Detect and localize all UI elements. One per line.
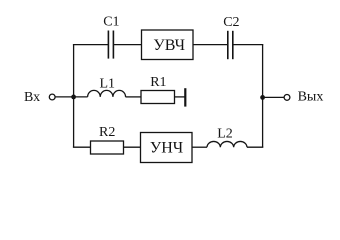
wire: L2 to right rail bbox=[247, 146, 263, 148]
svg-text:C1: C1 bbox=[103, 15, 119, 30]
inductor L2 bbox=[207, 141, 247, 147]
svg-text:R2: R2 bbox=[99, 125, 115, 140]
junction: output node dot on right rail bbox=[260, 95, 265, 100]
svg-text:R1: R1 bbox=[150, 75, 166, 90]
wire: left rail (node A vertical bus) bbox=[73, 45, 75, 148]
wire: УВЧ to C2 bbox=[193, 44, 228, 46]
wire: right rail to output circle bbox=[263, 96, 284, 98]
wire: R2 to УНЧ box bbox=[124, 146, 141, 148]
svg-text:УВЧ: УВЧ bbox=[153, 37, 185, 54]
inductor L1 bbox=[88, 90, 126, 97]
junction: input node dot on left rail bbox=[71, 95, 76, 100]
wire: R1 to terminal bar bbox=[175, 96, 186, 98]
wire: right rail (node B vertical bus) bbox=[262, 45, 264, 148]
svg-text:C2: C2 bbox=[223, 15, 239, 30]
terminal: input circle bbox=[49, 94, 55, 100]
resistor R1 bbox=[141, 91, 175, 104]
wire: left rail to R2 bbox=[73, 146, 91, 148]
terminal: output circle bbox=[284, 95, 290, 101]
wire: L1 to R1 bbox=[126, 96, 142, 98]
wire: УНЧ to L2 bbox=[192, 146, 207, 148]
capacitor C1 bbox=[108, 31, 113, 59]
svg-text:УНЧ: УНЧ bbox=[150, 140, 183, 157]
wire: input circle to L1 bbox=[55, 96, 87, 98]
block U2 УНЧ (AF amplifier box) bbox=[141, 133, 193, 163]
svg-text:L1: L1 bbox=[100, 77, 116, 92]
capacitor C2 bbox=[228, 31, 233, 59]
svg-text:Вх: Вх bbox=[24, 90, 40, 105]
resistor R2 bbox=[91, 141, 124, 154]
terminal bar: middle branch end stub bbox=[184, 88, 186, 106]
svg-text:L2: L2 bbox=[217, 126, 233, 141]
svg-text:Вых: Вых bbox=[298, 90, 324, 105]
wire: top-left segment rail to C1 bbox=[73, 44, 108, 46]
block U1 УВЧ (RF amplifier box) bbox=[142, 30, 194, 60]
wire: C1 to УВЧ box bbox=[113, 44, 141, 46]
wire: C2 to right rail bbox=[233, 44, 263, 46]
